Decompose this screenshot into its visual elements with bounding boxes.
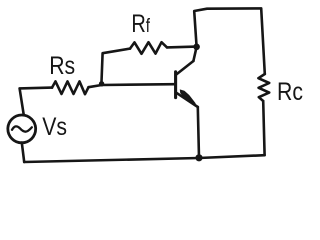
svg-text:f: f xyxy=(146,15,150,37)
resistor Rf xyxy=(130,42,167,54)
node emitter junction xyxy=(195,154,202,161)
transistor Q1 emitter lead xyxy=(176,93,197,107)
svg-text:Vs: Vs xyxy=(42,112,67,140)
node base junction xyxy=(99,81,104,86)
wire Rf to collector node xyxy=(167,45,197,48)
wire collector node up and top rail xyxy=(193,8,261,61)
wire Rs to base xyxy=(89,84,175,87)
transistor Q1 collector lead xyxy=(176,61,193,74)
voltage source Vs circle xyxy=(8,115,36,143)
transistor Q1 emitter arrow xyxy=(180,89,196,103)
wire Vs top to Rs left xyxy=(20,88,52,116)
wire bottom rail xyxy=(24,155,264,162)
wire Rf riser xyxy=(101,49,130,85)
wire right rail upper xyxy=(261,9,265,74)
resistor Rc xyxy=(258,74,269,101)
transistor Q1 base bar xyxy=(174,72,177,98)
svg-text:R: R xyxy=(131,10,145,38)
voltage source Vs sine wave xyxy=(12,126,32,131)
wire right rail lower xyxy=(263,101,264,155)
svg-text:Rc: Rc xyxy=(277,77,303,105)
node collector junction xyxy=(193,44,200,51)
wire bottom left riser xyxy=(22,143,24,162)
svg-text:Rs: Rs xyxy=(49,51,75,79)
wire emitter down xyxy=(198,107,199,158)
resistor Rs xyxy=(52,81,89,94)
